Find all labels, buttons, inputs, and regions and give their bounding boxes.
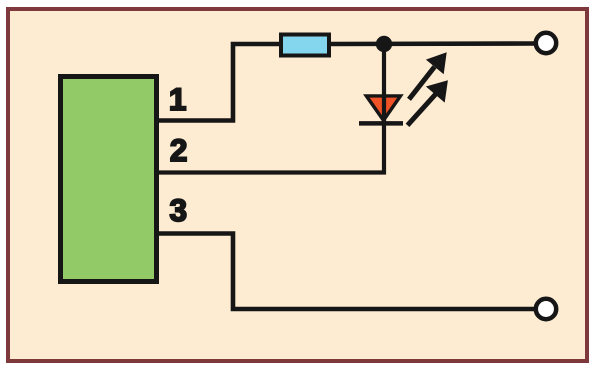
svg-text:2: 2 [170, 132, 188, 168]
IC box U1 [61, 77, 157, 282]
LED light arrow lower [408, 80, 448, 125]
wire pin3 down to bottom rail and terminal [159, 234, 536, 310]
junction node [376, 36, 392, 52]
LED D1 cathode bar [359, 121, 403, 126]
terminal top [536, 33, 556, 53]
svg-text:1: 1 [169, 81, 187, 117]
LED light arrow upper [409, 52, 447, 99]
svg-text:3: 3 [170, 192, 188, 228]
LED D1 triangle [366, 96, 400, 121]
resistor R1 [281, 35, 329, 56]
wire LED branch vertical + pin2 horizontal [159, 44, 384, 173]
wire top rail from resistor to terminal [329, 41, 536, 46]
wire pin1 horizontal + vertical up to top rail [159, 44, 281, 121]
terminal bottom [536, 299, 556, 319]
